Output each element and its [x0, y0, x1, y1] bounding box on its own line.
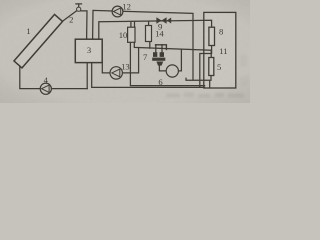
radiator 5	[209, 58, 214, 76]
safety valve 7 cap left	[153, 52, 157, 57]
collector 1 (tilted solar collector)	[14, 14, 63, 67]
wire: stub from header down to vessel 14	[148, 21, 150, 25]
wire: vessel 14 bottom stub to line D	[149, 42, 151, 49]
air vent 2 body	[77, 7, 81, 11]
safety valve 7 cap right	[160, 52, 164, 57]
storage tank 3	[75, 39, 102, 62]
expansion vessel 10	[128, 27, 135, 42]
bleed-through ghost marks (bottom right)	[166, 55, 248, 98]
pump 12	[112, 6, 123, 17]
wire: tank bottom pipe (right) down and long bottom line to room	[92, 63, 205, 88]
wire: tank top riser to main header (pipe C) with check valve 9, into radiator 8	[99, 20, 212, 39]
pump 4	[40, 83, 51, 94]
wire: equipment enclosure boundary (left and bottom)	[130, 42, 204, 85]
safety group 7 lower block	[156, 62, 163, 66]
wire: tank bottom right branch through pump 13 and riser up to line D	[102, 48, 138, 73]
check valve 9 (bowtie with arrow)	[156, 17, 161, 23]
wire: lower room line from pump area into room, down to room bottom	[186, 76, 211, 88]
air vent 2 stem and cap	[76, 4, 82, 7]
paper background	[0, 0, 250, 103]
safety group 7 top bar with outlet drop	[156, 45, 167, 50]
vessel 14	[146, 26, 152, 42]
paper grain overlay	[0, 0, 1, 1]
wire: line D from vessel 10 stub across to radiator 5 feed	[134, 42, 211, 57]
circulation pump 6	[166, 65, 178, 77]
wire: stubs from header down to expansion vessel 10	[131, 22, 135, 28]
wire: block 7 down to pump 6 inlet	[159, 66, 166, 71]
pump 13	[110, 67, 122, 79]
wire: collector top to air vent line, elbow down into tank top (node at x=87)	[62, 11, 87, 39]
wire: bottom return line from collector through pump 4	[20, 67, 87, 89]
radiator 8	[209, 27, 215, 45]
wire: drop from line D to pump 6 right side	[178, 50, 181, 71]
wire: radiator 8 return down, left to riser B, riser B down to bottom line	[200, 46, 212, 88]
safety group 7 base bar	[152, 58, 165, 61]
wire: tank bottom pipe (left) down to bottom return line	[86, 63, 88, 89]
safety group 7 posts	[156, 45, 162, 53]
wire: tank top to top header through pump 12, riser down at x=193	[93, 10, 193, 80]
room enclosure 11 (right box)	[204, 12, 236, 88]
